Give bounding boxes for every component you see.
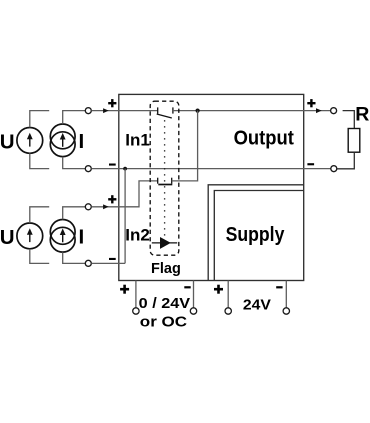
wire I1 bracket top bbox=[63, 111, 86, 124]
wire I2 bracket top bbox=[63, 207, 86, 220]
svg-text:R: R bbox=[355, 103, 369, 125]
plus sign In1+ bbox=[108, 99, 116, 107]
minus sign control bbox=[184, 286, 190, 288]
terminal In1- bbox=[85, 166, 91, 172]
relay contact 2 tick right bbox=[171, 178, 173, 184]
minus sign supply bbox=[276, 286, 282, 288]
svg-text:0 / 24V: 0 / 24V bbox=[139, 296, 191, 312]
svg-text:Flag: Flag bbox=[151, 261, 181, 277]
supply isolation outer line bbox=[208, 185, 304, 281]
minus sign output- bbox=[307, 163, 314, 165]
junction node minus bbox=[123, 167, 127, 171]
wire I2 bracket bottom bbox=[63, 252, 86, 263]
wire In2- stub bbox=[91, 262, 125, 264]
plus sign In2+ bbox=[108, 195, 116, 203]
terminal In1+ bbox=[85, 108, 91, 114]
voltage source U1 arrow bbox=[29, 139, 31, 147]
control terminal stub + bbox=[135, 281, 137, 308]
plus sign supply bbox=[214, 285, 223, 294]
main block outline bbox=[119, 94, 304, 280]
svg-text:I: I bbox=[79, 130, 85, 153]
wire U1 bracket bottom bbox=[30, 153, 49, 168]
relay coupling dotted line bbox=[164, 120, 166, 235]
minus sign In1- bbox=[109, 164, 116, 166]
svg-text:Output: Output bbox=[234, 127, 294, 150]
current source I2 arrow bbox=[62, 235, 64, 243]
supply terminal stub + bbox=[227, 281, 229, 308]
svg-text:U: U bbox=[0, 130, 15, 153]
wire I1 bracket bottom bbox=[63, 157, 86, 169]
svg-text:I: I bbox=[79, 225, 85, 248]
arrowhead In2+ bbox=[103, 204, 109, 209]
current source I2 circles bbox=[50, 220, 75, 245]
control terminal circle - bbox=[190, 308, 196, 314]
relay contact 1 tick left bbox=[157, 107, 159, 113]
wire contact1 to output+ bbox=[173, 110, 331, 112]
relay contact 2 blade (closed bar) bbox=[158, 184, 172, 186]
supply isolation inner line bbox=[214, 191, 303, 281]
wire In2+ into block bbox=[91, 181, 157, 207]
voltage source U2 circle bbox=[17, 223, 43, 249]
voltage source U1 circle bbox=[17, 127, 43, 153]
flag actuator arrow bbox=[160, 237, 171, 249]
plus sign output+ bbox=[307, 99, 315, 107]
terminal Output+ bbox=[331, 108, 337, 114]
svg-text:24V: 24V bbox=[243, 298, 271, 314]
wire U2 bracket top bbox=[30, 207, 49, 223]
svg-text:or OC: or OC bbox=[140, 315, 188, 331]
svg-text:In1: In1 bbox=[125, 131, 150, 150]
current source I1 circles bbox=[50, 124, 75, 149]
supply terminal stub - bbox=[285, 281, 287, 308]
terminal In2+ bbox=[85, 204, 91, 210]
wire In1+ into block bbox=[91, 110, 157, 112]
arrowhead In1+ bbox=[103, 108, 109, 113]
wire In1/Output minus (long) bbox=[91, 168, 330, 170]
terminal Output- bbox=[331, 166, 337, 172]
minus sign In2- bbox=[109, 258, 116, 260]
relay contact 2 tick left bbox=[157, 178, 159, 184]
wire resistor to output- bbox=[337, 152, 354, 169]
plus sign control bbox=[120, 285, 129, 294]
flag actuator line bbox=[152, 242, 177, 244]
dashed relay box bbox=[150, 101, 179, 255]
wire U1 bracket top bbox=[30, 111, 49, 128]
wire contact2 riser to junction bbox=[172, 111, 198, 181]
control terminal circle + bbox=[133, 308, 139, 314]
supply terminal circle + bbox=[225, 308, 231, 314]
svg-text:U: U bbox=[0, 226, 15, 249]
relay contact 1 tick right bbox=[172, 107, 174, 113]
arrowhead output+ bbox=[316, 108, 322, 113]
svg-text:Supply: Supply bbox=[226, 224, 286, 246]
wire branch minus to In2- bbox=[124, 169, 126, 264]
supply terminal circle - bbox=[283, 308, 289, 314]
junction node output+ bbox=[196, 109, 200, 113]
voltage source U2 arrow bbox=[29, 234, 31, 242]
current source I1 arrow bbox=[62, 139, 64, 147]
svg-text:In2: In2 bbox=[125, 226, 150, 245]
relay contact 1 blade (open) bbox=[157, 114, 172, 118]
resistor R bbox=[348, 129, 360, 153]
wire U2 bracket bottom bbox=[30, 249, 49, 263]
terminal In2- bbox=[85, 260, 91, 266]
wire output+ to resistor bbox=[343, 111, 355, 129]
control terminal stub - bbox=[193, 281, 195, 308]
